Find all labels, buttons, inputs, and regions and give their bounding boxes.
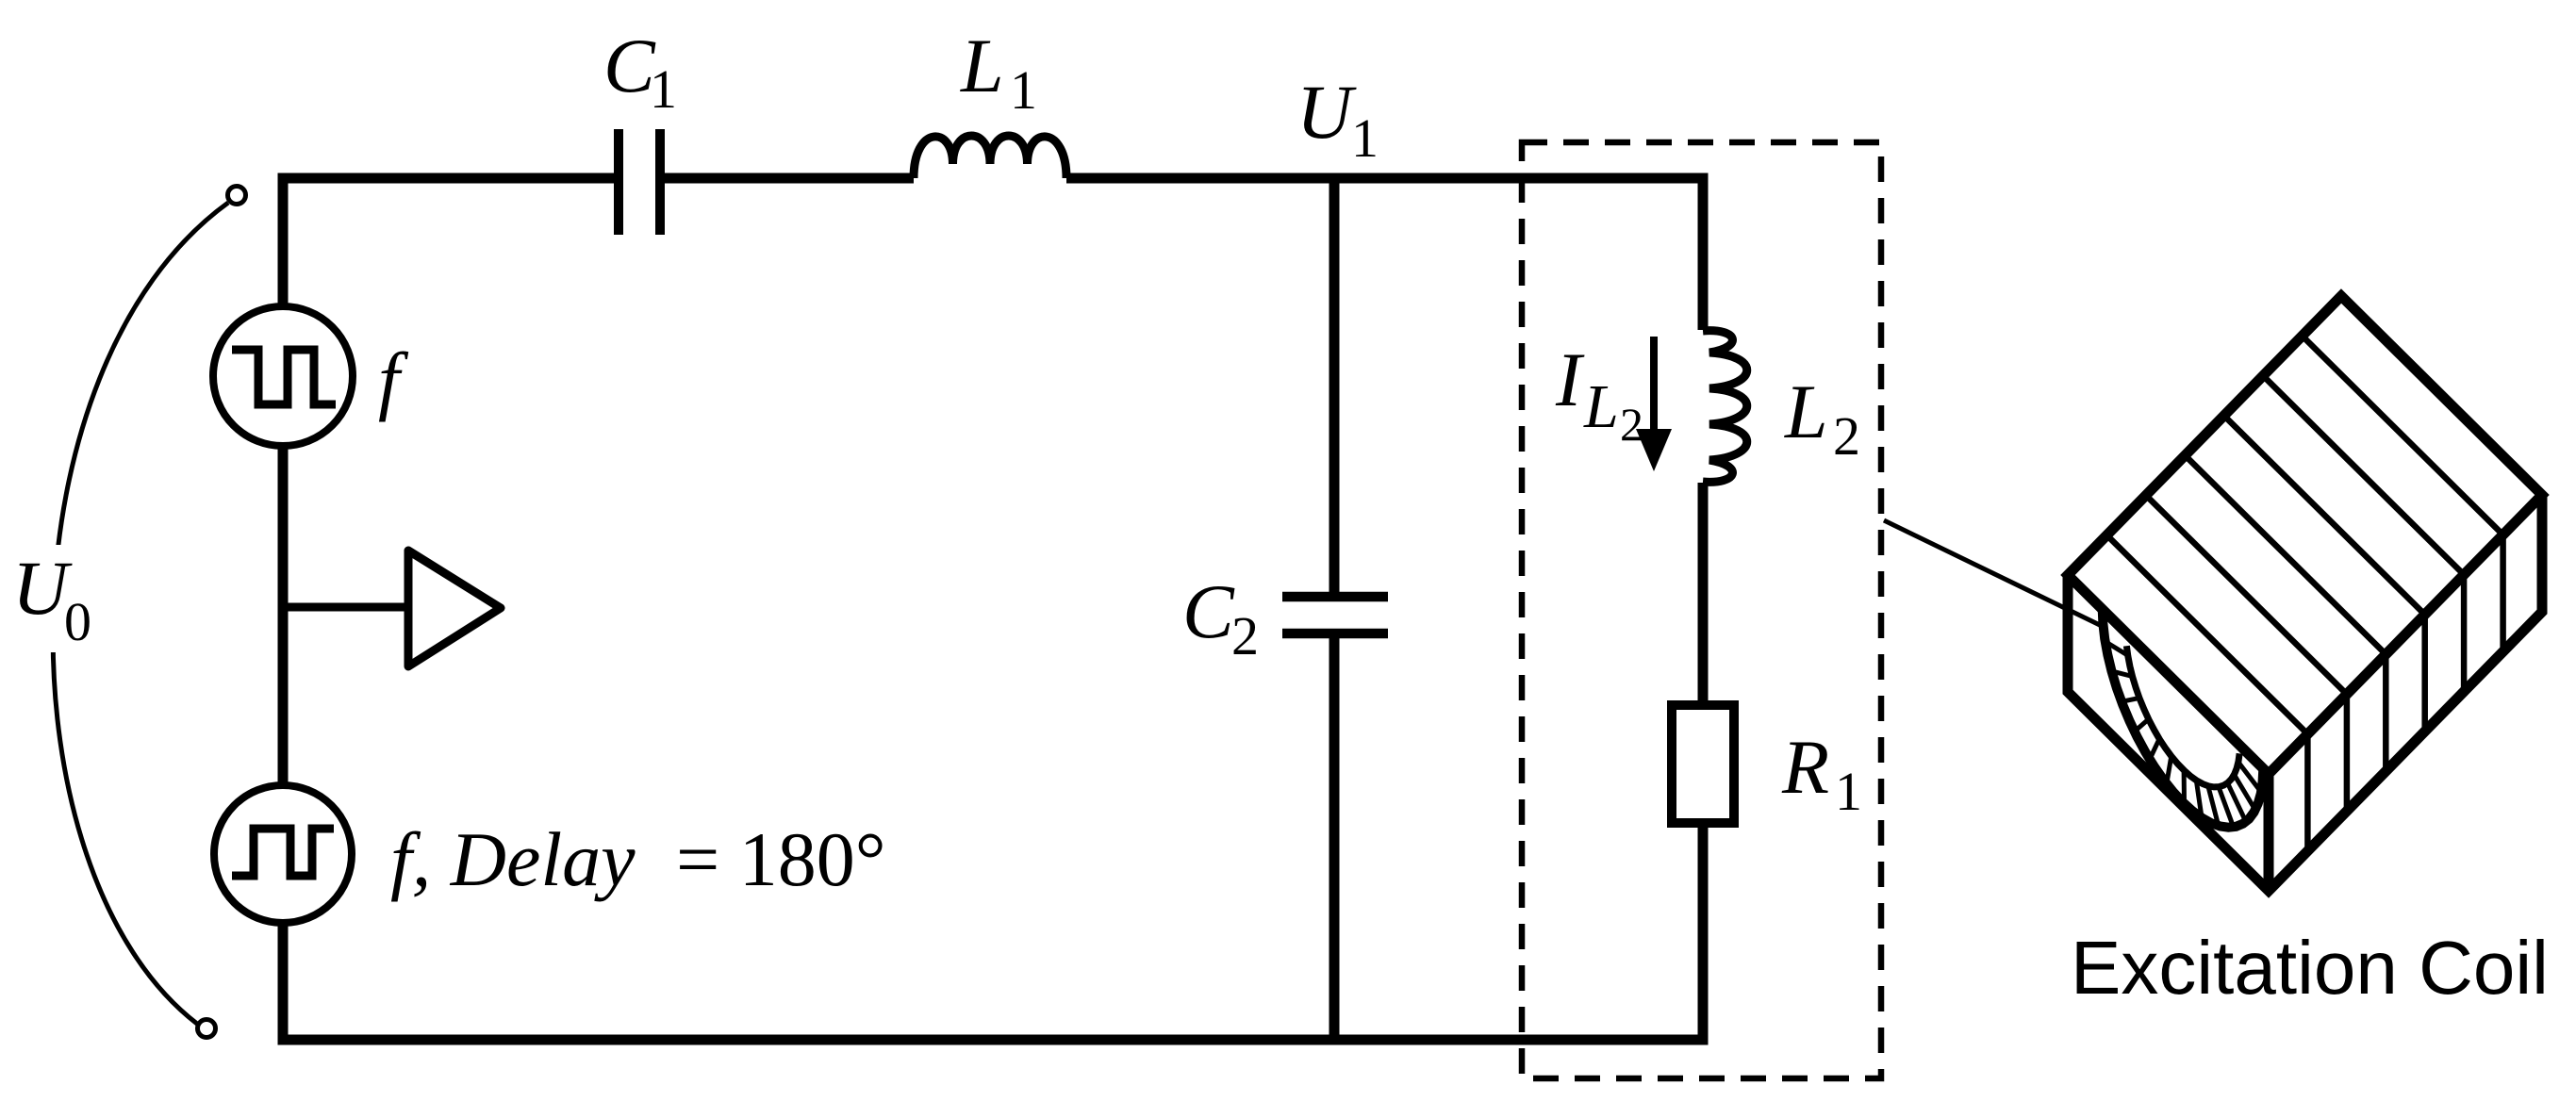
wire from L2 to R1 (1698, 483, 1709, 705)
svg-text:2: 2 (1833, 405, 1860, 467)
U0 measurement arc (53, 203, 228, 1024)
amplifier triangle (408, 551, 501, 666)
svg-text:C: C (1182, 568, 1235, 654)
pulse source V2 circle (214, 785, 352, 923)
wire C2 branch lower (1329, 638, 1340, 1040)
svg-text:f, Delay= 180°: f, Delay= 180° (390, 816, 886, 902)
inductor L1 (914, 136, 1066, 178)
svg-text:1: 1 (650, 58, 677, 120)
svg-text:U: U (1296, 69, 1357, 155)
core top lamination stripes (2106, 336, 2502, 733)
wire left column between sources (278, 446, 289, 785)
svg-text:2: 2 (1620, 398, 1643, 451)
pulse source V1 circle (213, 306, 353, 446)
svg-text:2: 2 (1231, 605, 1259, 666)
coil groove inner arc (2126, 646, 2239, 787)
svg-text:1: 1 (1010, 59, 1037, 121)
svg-text:0: 0 (64, 591, 91, 652)
svg-text:1: 1 (1835, 761, 1862, 822)
wire from L1 through node U1 to top-right corner and down to L2 (1066, 178, 1703, 330)
svg-text:f: f (378, 337, 409, 422)
terminal node top (228, 187, 246, 205)
wire from R1 to bottom-right corner and bottom wire to left column (283, 823, 1703, 1040)
svg-text:L: L (960, 23, 1004, 108)
label U0 (6, 545, 107, 652)
core right-face lamination stripes (2307, 534, 2502, 850)
wire top-left from C1 to left corner down to source1 (283, 178, 614, 306)
pulse source V1 waveform (232, 350, 336, 404)
excitation coil 3D core (2068, 296, 2542, 891)
wire C2 branch upper (1329, 178, 1340, 592)
dashed measurement box around L2 R1 (1522, 142, 1881, 1078)
capacitor C2 (1282, 597, 1388, 633)
current arrow I_L2 (1650, 337, 1658, 429)
svg-text:1: 1 (1351, 107, 1379, 169)
core outline (2068, 296, 2542, 774)
svg-text:L: L (1583, 372, 1619, 441)
amplifier tap wire (283, 603, 408, 612)
coil groove outer arc (2103, 610, 2264, 828)
svg-text:I: I (1555, 337, 1585, 422)
svg-text:C: C (603, 23, 656, 108)
wire between C1 and L1 (665, 173, 914, 184)
svg-text:R: R (1781, 724, 1829, 810)
terminal node bottom (198, 1020, 216, 1038)
svg-text:L: L (1784, 369, 1828, 454)
svg-text:Excitation Coil: Excitation Coil (2071, 926, 2549, 1010)
resistor R1 (1672, 705, 1734, 823)
pulse source V2 waveform (232, 829, 334, 876)
inductor L2 (1703, 331, 1747, 483)
dashed-box to coil connector line (1884, 520, 2104, 627)
coil winding hatch ticks (2105, 642, 2262, 828)
capacitor C1 (619, 129, 660, 235)
